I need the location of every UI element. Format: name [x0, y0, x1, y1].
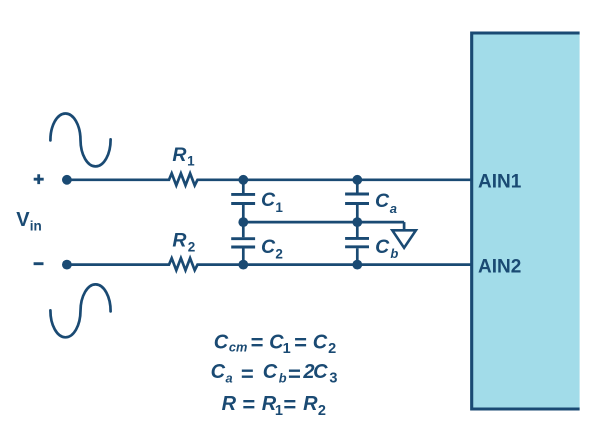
label Vin	[16, 209, 42, 234]
svg-text:cm: cm	[229, 340, 248, 355]
pin label AIN2	[478, 256, 521, 277]
node Cb bottom	[352, 260, 362, 270]
svg-text:R: R	[303, 393, 318, 415]
svg-text:1: 1	[283, 341, 291, 357]
svg-text:C: C	[375, 236, 390, 258]
svg-text:2: 2	[188, 239, 196, 254]
svg-text:=: =	[288, 361, 301, 386]
svg-text:b: b	[279, 371, 287, 386]
svg-text:C: C	[313, 332, 328, 354]
svg-text:2: 2	[275, 246, 283, 261]
node plus terminal	[62, 175, 72, 185]
svg-text:1: 1	[275, 403, 283, 419]
svg-text:R: R	[172, 230, 186, 252]
svg-text:1: 1	[187, 153, 195, 168]
label R1	[172, 144, 195, 169]
label R2	[172, 230, 195, 255]
plus terminal label	[34, 174, 44, 184]
svg-text:C: C	[261, 189, 276, 211]
wire middle rail	[243, 221, 404, 224]
node minus terminal	[62, 260, 72, 270]
svg-text:=: =	[241, 361, 254, 386]
svg-text:2: 2	[318, 403, 326, 419]
svg-text:C: C	[211, 361, 226, 383]
source sine symbol top	[50, 113, 110, 166]
capacitor C1	[231, 180, 255, 222]
svg-text:1: 1	[275, 200, 283, 215]
svg-text:R: R	[222, 393, 237, 415]
svg-text:V: V	[16, 209, 30, 231]
label C2	[261, 236, 283, 262]
source sine symbol bottom	[50, 284, 110, 337]
svg-text:AIN2: AIN2	[478, 256, 521, 277]
svg-text:=: =	[283, 392, 296, 417]
svg-text:=: =	[294, 330, 307, 355]
node C1 top	[238, 175, 248, 185]
svg-text:C: C	[214, 332, 229, 354]
wire bottom rail with resistor R2 body	[67, 258, 471, 270]
label Ca	[375, 190, 397, 216]
svg-text:3: 3	[329, 371, 337, 387]
svg-text:=: =	[250, 330, 263, 355]
svg-text:2: 2	[328, 341, 336, 357]
equation Ccm = C1 = C2	[214, 330, 336, 357]
node Ca-Cb mid	[352, 217, 362, 227]
node Ca top	[352, 175, 362, 185]
svg-text:C: C	[263, 361, 278, 383]
minus terminal label	[34, 262, 44, 265]
node C1-C2 mid	[238, 217, 248, 227]
equation R = R1 = R2	[222, 392, 326, 419]
svg-text:AIN1: AIN1	[478, 172, 522, 193]
svg-text:b: b	[390, 246, 398, 261]
svg-text:C: C	[261, 236, 276, 258]
svg-text:C: C	[313, 361, 328, 383]
svg-text:R: R	[172, 144, 186, 166]
svg-text:a: a	[226, 371, 233, 386]
svg-text:a: a	[390, 201, 397, 216]
svg-text:in: in	[30, 219, 42, 234]
ADC block	[470, 32, 579, 411]
capacitor C2	[231, 222, 255, 265]
wire top rail with resistor R1 body	[67, 173, 471, 185]
svg-text:C: C	[375, 190, 390, 212]
capacitor Cb	[345, 222, 369, 265]
pin label AIN1	[478, 172, 522, 193]
svg-text:=: =	[242, 392, 255, 417]
capacitor Ca	[345, 180, 369, 222]
label Cb	[375, 236, 398, 261]
equation Ca = Cb = 2C3	[211, 361, 338, 387]
ground	[392, 222, 416, 248]
node C2 bottom	[238, 260, 248, 270]
label C1	[261, 189, 283, 215]
